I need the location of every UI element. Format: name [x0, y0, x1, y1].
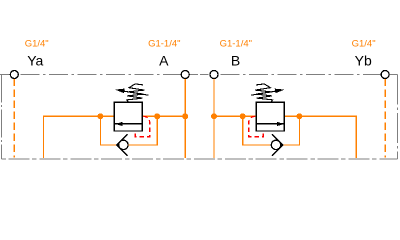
check valve CV2 ball [271, 140, 280, 149]
port A [181, 71, 189, 79]
junction node (right branch left) [240, 113, 246, 119]
wire Yb pilot drain (orange dashed) [384, 79, 386, 158]
junction node (left branch right) [154, 113, 160, 119]
wire left check-valve branch [100, 116, 157, 145]
svg-text:B: B [231, 53, 240, 69]
svg-text:G1-1/4": G1-1/4" [220, 39, 252, 50]
svg-text:A: A [159, 53, 169, 69]
junction node B [211, 113, 217, 119]
frame left border [0, 75, 2, 160]
port Ya [10, 71, 18, 79]
relief valve V2 spring [255, 84, 272, 102]
junction node (left branch left) [97, 113, 103, 119]
check valve CV1 ball [119, 140, 128, 149]
wire left circuit main line [43, 116, 185, 158]
port Yb [381, 71, 389, 79]
wire Ya pilot drain (orange dashed) [13, 79, 15, 158]
svg-text:Ya: Ya [27, 53, 43, 69]
relief valve V1 pilot line (red dashed) [135, 116, 149, 136]
svg-text:G1-1/4": G1-1/4" [148, 39, 180, 50]
relief valve V1 spring [127, 84, 144, 102]
relief valve V2 pilot line (red dashed) [249, 116, 263, 136]
wire B port vertical [213, 79, 215, 159]
frame right border [397, 75, 399, 160]
relief valve V1 adjustment arrow [115, 89, 149, 96]
svg-text:Yb: Yb [355, 53, 372, 69]
relief valve V2 flow path arrow [256, 122, 284, 126]
junction node (right branch right) [296, 113, 302, 119]
frame top dash-dot line [0, 74, 398, 76]
relief valve V1 body [114, 102, 142, 131]
relief valve V2 adjustment arrow [251, 89, 285, 96]
port B [210, 71, 218, 79]
wire A port vertical [184, 79, 186, 159]
check valve CV2 seat [272, 134, 283, 156]
junction node A [182, 113, 188, 119]
wire right circuit main line [214, 116, 356, 158]
svg-text:G1/4": G1/4" [25, 39, 49, 50]
check valve CV1 seat [117, 134, 128, 156]
relief valve V1 flow path arrow [114, 122, 142, 126]
svg-text:G1/4": G1/4" [352, 39, 376, 50]
frame bottom dash-dot line [1, 158, 397, 160]
wire right check-valve branch [243, 116, 300, 145]
relief valve V2 body [256, 102, 284, 131]
